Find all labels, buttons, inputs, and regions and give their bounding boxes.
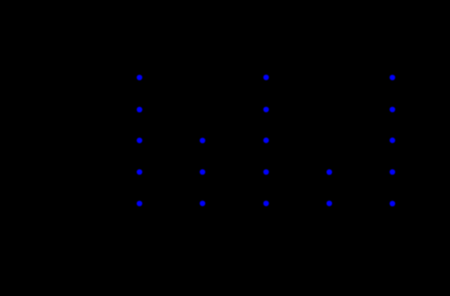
data point row4 col5 bbox=[390, 169, 396, 175]
data point row2 col1 bbox=[137, 107, 143, 113]
data point row3 col3 bbox=[263, 138, 269, 144]
data point row1 col3 bbox=[263, 75, 269, 81]
data point row2 col5 bbox=[390, 107, 396, 113]
data point row5 col5 bbox=[390, 201, 396, 207]
data point row1 col1 bbox=[137, 75, 143, 81]
data point row2 col3 bbox=[263, 107, 269, 113]
data point row5 col4 bbox=[327, 201, 333, 207]
data point row3 col5 bbox=[390, 138, 396, 144]
data point row5 col2 bbox=[200, 201, 206, 207]
data point row4 col2 bbox=[200, 169, 206, 175]
data point row4 col1 bbox=[137, 169, 143, 175]
data point row4 col3 bbox=[263, 169, 269, 175]
data point row5 col1 bbox=[137, 201, 143, 207]
data point row4 col4 bbox=[327, 169, 333, 175]
data point row5 col3 bbox=[263, 201, 269, 207]
data point row1 col5 bbox=[390, 75, 396, 81]
data point row3 col2 bbox=[200, 138, 206, 144]
data point row3 col1 bbox=[137, 138, 143, 144]
